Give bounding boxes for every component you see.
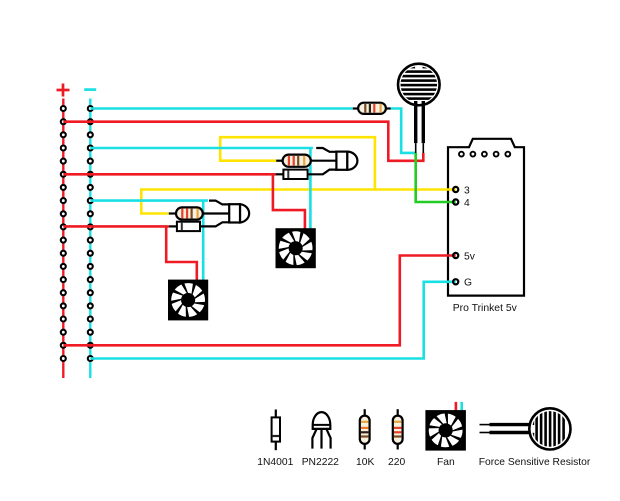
legend resistor 10K symbol	[360, 416, 370, 444]
wire red power rail to D2 anode	[63, 225, 169, 228]
diode D1 1N4001	[283, 170, 307, 179]
Q1 emitter lead	[316, 148, 337, 152]
svg-text:4: 4	[464, 198, 470, 209]
resistor 10K lead left	[353, 107, 358, 109]
minus symbol of ground rail	[84, 88, 96, 91]
resistor R 220 #2 lead left	[169, 212, 176, 214]
wire red down to fan M2 left pin	[166, 226, 197, 280]
svg-text:5v: 5v	[464, 251, 476, 262]
wire red down to fan M1 left pin	[273, 174, 305, 229]
svg-text:220: 220	[388, 457, 405, 468]
Q1 collector lead / D1 cathode lead	[308, 170, 338, 175]
legend transistor PN2222 symbol	[312, 412, 330, 448]
transistor Q2 PN2222	[229, 204, 249, 222]
svg-text:G: G	[464, 278, 472, 289]
resistor R 220 #1 lead left	[276, 160, 282, 162]
svg-text:PN2222: PN2222	[302, 457, 339, 468]
legend fan cyan wire stub	[460, 402, 463, 411]
wire cyan ground rail to 10K	[90, 107, 353, 110]
wire cyan ground rail to Q2 emitter and fan M2	[90, 199, 208, 202]
wire cyan down to fan M2 right pin	[202, 201, 205, 281]
legend fan red wire stub	[455, 402, 458, 411]
microcontroller U1 Pro Trinket 5v body	[448, 139, 524, 296]
U1 pin 3	[453, 187, 458, 192]
wire cyan ground rail to U1 pin G	[90, 282, 455, 359]
U1 pin 5v	[453, 253, 458, 258]
wire yellow branch to R220 #1	[220, 137, 375, 189]
U1 pin G	[453, 279, 458, 284]
diode D2 1N4001	[177, 222, 200, 231]
wire yellow pin3 to R220 #2	[141, 190, 455, 214]
Q2 collector lead / D2 cathode lead	[200, 222, 230, 226]
resistor 10K lead right	[386, 107, 391, 109]
- ground rail holes	[88, 106, 93, 361]
diode D1 1N4001 lead left	[276, 173, 284, 175]
legend diode 1N4001 symbol	[272, 417, 280, 441]
resistor R 220 #1	[283, 155, 311, 167]
legend resistor 220 symbol	[393, 416, 403, 444]
legend resistor 10K lead	[364, 409, 366, 449]
- ground rail vertical wire	[89, 99, 91, 379]
legend fan symbol	[425, 410, 466, 451]
transistor Q1 PN2222	[336, 152, 357, 170]
svg-text:10K: 10K	[356, 457, 374, 468]
resistor R 220 #2	[176, 207, 203, 219]
fan M2	[168, 280, 208, 321]
wire red power rail to FSR1 right lead	[63, 122, 423, 161]
+ power rail vertical wire	[62, 99, 64, 379]
svg-text:1N4001: 1N4001	[257, 457, 293, 468]
fan M1	[276, 228, 316, 268]
wire cyan ground rail to Q1 emitter and fan M1	[90, 147, 313, 150]
resistor R 220 #2 base lead to Q2	[203, 212, 230, 214]
wire red power rail to D1 anode	[63, 173, 275, 176]
diode D2 1N4001 lead left	[169, 225, 177, 227]
svg-text:Fan: Fan	[437, 457, 455, 468]
svg-text:Force Sensitive Resistor: Force Sensitive Resistor	[479, 457, 591, 468]
Q2 emitter lead	[209, 201, 230, 205]
+ power rail holes	[61, 106, 66, 361]
wire green FSR1 junction to U1 pin 4	[416, 153, 456, 202]
svg-text:3: 3	[464, 185, 470, 196]
wire cyan down to fan M1 right pin	[309, 148, 312, 229]
svg-text:Pro Trinket 5v: Pro Trinket 5v	[453, 303, 518, 314]
legend force sensitive resistor symbol	[480, 407, 571, 451]
legend resistor 220 lead	[397, 409, 399, 449]
wire cyan 10K to FSR1 left lead	[391, 109, 416, 153]
U1 pin 4	[453, 199, 458, 204]
U1 top header holes	[459, 152, 510, 157]
resistor 10K (voltage divider)	[358, 103, 386, 114]
force sensitive resistor FSR1	[397, 64, 441, 153]
resistor R 220 #1 base lead to Q1	[311, 160, 338, 162]
wire red power rail to U1 pin 5v	[63, 256, 455, 346]
legend diode 1N4001 lead	[275, 410, 277, 451]
plus symbol of power rail	[57, 84, 70, 97]
